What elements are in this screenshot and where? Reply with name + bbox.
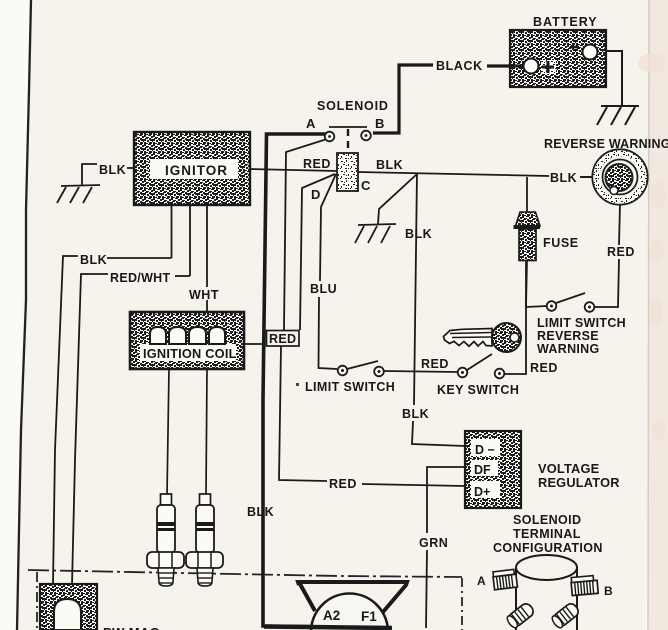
- RED label box: [267, 331, 300, 347]
- svg-text:GRN: GRN: [419, 536, 448, 550]
- motor body: [264, 594, 392, 630]
- wire: pin2 RED/WHT run to engine box: [72, 274, 190, 585]
- svg-text:C: C: [361, 178, 371, 193]
- chassis dash-dot line horizontal: [28, 570, 462, 577]
- wire: solenoid D wire down to RED label box: [300, 174, 335, 330]
- ignition coil box: [130, 312, 244, 369]
- wire: coil bottom leads to spark plugs: [167, 369, 207, 495]
- wire: regulator DF GRN wire: [426, 467, 465, 628]
- motor dashed box right edge: [461, 578, 463, 630]
- solenoid terminal configuration cylinder: [492, 555, 598, 630]
- wire: solenoid dashed link to C: [347, 129, 349, 153]
- svg-text:DF: DF: [474, 463, 491, 477]
- faint ghost blobs right: [638, 53, 666, 440]
- left page margin strip: [0, 0, 30, 630]
- svg-text:REVERSE WARNING: REVERSE WARNING: [544, 137, 668, 151]
- ground: ignitor ground symbol: [57, 185, 100, 203]
- chassis dash-dot line vertical left: [36, 572, 38, 630]
- svg-text:VOLTAGE: VOLTAGE: [538, 461, 600, 476]
- fuse: [514, 212, 541, 261]
- svg-text:D+: D+: [474, 485, 490, 499]
- solenoid terminal B: [361, 131, 371, 141]
- svg-text:SOLENOID: SOLENOID: [317, 99, 389, 113]
- battery: [508, 30, 606, 87]
- wire: lsw-rev-warning right to RED riser: [594, 259, 619, 307]
- right strip edge line: [648, 0, 649, 630]
- svg-text:BLK: BLK: [376, 158, 403, 172]
- svg-text:F1: F1: [361, 609, 377, 624]
- wire: solenoid top bar: [329, 126, 367, 128]
- svg-text:RED: RED: [329, 477, 357, 491]
- spark plug 1: [147, 494, 184, 586]
- svg-text:BLK: BLK: [405, 227, 432, 241]
- bottom bolt right: [550, 601, 580, 629]
- svg-text:RED: RED: [303, 157, 331, 171]
- wire: fuse top riser: [526, 177, 528, 213]
- ground: middle ground symbol: [355, 224, 396, 243]
- limit switch reverse warning terminals and arm: [547, 293, 595, 312]
- svg-text:RED: RED: [269, 332, 296, 346]
- wire: ignitor pin1 down: [171, 205, 173, 258]
- wire: ignitor left BLK lead: [127, 167, 135, 169]
- wire: key switch right to fuse riser: [504, 260, 526, 374]
- svg-text:RED/WHT: RED/WHT: [110, 271, 170, 285]
- svg-text:B: B: [375, 116, 384, 131]
- svg-text:WARNING: WARNING: [537, 342, 600, 356]
- svg-text:WHT: WHT: [189, 288, 219, 302]
- wire: fuse bottom lead: [526, 260, 527, 307]
- bottom bolt left: [505, 601, 535, 629]
- svg-text:BLACK: BLACK: [436, 59, 483, 73]
- wire: BLU wire C to limit switch: [319, 174, 338, 369]
- key switch terminals and arm: [458, 354, 505, 378]
- wire: ignitor pin2 down: [189, 205, 191, 276]
- wire: coil right lead to thick wire: [244, 343, 264, 345]
- svg-text:TERMINAL: TERMINAL: [513, 527, 581, 541]
- svg-text:FUSE: FUSE: [543, 236, 579, 250]
- svg-text:D: D: [311, 187, 320, 202]
- svg-text:BLK: BLK: [80, 253, 107, 267]
- wire: battery negative to ground: [595, 51, 622, 105]
- limit switch terminals and arm: [338, 361, 384, 376]
- engine magneto box bottom left: [40, 584, 97, 630]
- wire: RED wire ignitor to C: [250, 169, 337, 171]
- wire: thick ignitor-to-motor wire: [263, 134, 390, 628]
- svg-text:SOLENOID: SOLENOID: [513, 513, 581, 527]
- svg-text:BLK: BLK: [247, 505, 274, 519]
- wire: BLK bracket to ignitor ground: [82, 164, 97, 186]
- svg-text:RED: RED: [421, 357, 449, 371]
- wire: BLK wire C to reverse warning: [358, 172, 549, 176]
- wire: riser to limit switch reverse warning: [526, 306, 547, 307]
- svg-text:RED: RED: [530, 361, 558, 375]
- scan speck: [296, 383, 299, 386]
- solenoid terminal A: [325, 132, 335, 142]
- svg-text:A2: A2: [323, 608, 340, 623]
- voltage regulator: [465, 431, 521, 508]
- wire: limit switch to key switch horizontal: [384, 371, 458, 372]
- svg-text:BATTERY: BATTERY: [533, 15, 598, 29]
- wire: reverse warning left lead: [580, 176, 592, 178]
- svg-text:RED: RED: [607, 245, 635, 259]
- svg-text:REGULATOR: REGULATOR: [538, 475, 620, 490]
- svg-text:BLK: BLK: [402, 407, 429, 421]
- svg-text:REVERSE: REVERSE: [537, 329, 599, 343]
- wire: ignitor pin3 WHT to coil: [206, 205, 208, 313]
- motor frame bracket: [298, 582, 407, 612]
- page edge line: [17, 0, 31, 630]
- solenoid coil C box: [337, 153, 358, 191]
- right page strip: [648, 0, 668, 630]
- spark plug 2: [186, 494, 223, 586]
- svg-text:KEY SWITCH: KEY SWITCH: [437, 383, 519, 397]
- ground: battery ground symbol: [597, 106, 639, 125]
- svg-text:PW MAG: PW MAG: [103, 625, 160, 630]
- svg-text:BLU: BLU: [310, 282, 337, 296]
- ignitor box: [134, 132, 250, 205]
- svg-text:BLK: BLK: [550, 171, 577, 185]
- svg-text:B: B: [604, 584, 613, 598]
- ground: middle ground stem: [378, 174, 417, 224]
- svg-text:CONFIGURATION: CONFIGURATION: [493, 541, 603, 555]
- svg-text:IGNITOR: IGNITOR: [165, 163, 228, 178]
- svg-text:A: A: [306, 116, 316, 131]
- svg-text:D −: D −: [475, 443, 495, 457]
- key: [444, 323, 522, 352]
- svg-text:LIMIT SWITCH: LIMIT SWITCH: [537, 316, 626, 330]
- wire: RED riser to reverse warning: [619, 204, 620, 245]
- terminal bolt A: [492, 569, 517, 590]
- svg-text:IGNITION COIL: IGNITION COIL: [143, 346, 237, 361]
- terminal bolt B: [571, 575, 598, 595]
- reverse warning buzzer: [593, 150, 648, 205]
- svg-text:LIMIT SWITCH: LIMIT SWITCH: [305, 380, 395, 394]
- wire: thick battery BLACK wire: [373, 65, 526, 133]
- svg-text:A: A: [477, 574, 486, 588]
- wire: BLK wire junction down to regulator D-: [412, 173, 465, 446]
- svg-text:BLK: BLK: [99, 163, 126, 177]
- wire: solenoid A to RED label to regulator D+: [279, 139, 465, 486]
- wire: pin1 BLK run to engine box: [53, 256, 172, 585]
